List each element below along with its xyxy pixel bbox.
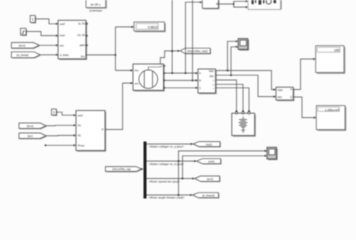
bus row 1 wire vs_q xyxy=(147,143,194,145)
wire a to load xyxy=(216,80,238,113)
svg-text:[AsyncMac_sig1]: [AsyncMac_sig1] xyxy=(187,49,208,53)
powergui block xyxy=(86,0,107,13)
svg-text:wref: wref xyxy=(78,113,83,117)
svg-text:<Rotor speed wm (pu)>: <Rotor speed wm (pu)> xyxy=(149,179,181,183)
svg-text:Vabc: Vabc xyxy=(209,70,215,73)
svg-text:[wr1]: [wr1] xyxy=(207,177,213,181)
wire subsystem out to machine in2 xyxy=(105,82,133,130)
svg-text:<Stator voltage vs_q (pu)>: <Stator voltage vs_q (pu)> xyxy=(149,145,185,149)
wire Pm net xyxy=(86,26,134,72)
from tag [wm] bottom xyxy=(19,123,47,129)
svg-text:Iabc: Iabc xyxy=(209,75,214,78)
svg-text:Q: Q xyxy=(290,96,292,99)
from tag [d_theta] top xyxy=(11,52,40,59)
scope1 (small, mid) xyxy=(238,39,249,51)
subsystem P (bottom left) xyxy=(76,111,106,152)
svg-text:P1: P1 xyxy=(78,123,82,127)
svg-text:Vd_5d: Vd_5d xyxy=(77,33,85,37)
svg-text:0.5815: 0.5815 xyxy=(148,26,158,30)
wire VI B tap up to top edge xyxy=(192,0,194,80)
wire [wm]b to subsystem in2 xyxy=(46,124,76,126)
svg-text:[d_theta]: [d_theta] xyxy=(17,53,29,57)
svg-text:Pmax: Pmax xyxy=(78,143,85,147)
wire meas P to display1 xyxy=(293,58,316,90)
wire step to Pref xyxy=(26,32,58,37)
svg-text:Vabc: Vabc xyxy=(278,89,284,92)
wire machine m to goto tag, vertical to top xyxy=(160,0,180,73)
wire [wm] to wm xyxy=(39,44,58,46)
svg-text:Pm: Pm xyxy=(135,70,139,73)
svg-text:2e-05 s.: 2e-05 s. xyxy=(90,2,101,6)
bus row 4 wire thetam xyxy=(147,194,193,196)
svg-text:C: C xyxy=(199,87,201,90)
display2 (1.286e+04) xyxy=(316,106,346,131)
scope2 (bottom right) xyxy=(267,147,278,160)
wire b to load xyxy=(216,84,245,113)
from tag [wm] top xyxy=(11,43,40,49)
three-phase RLC load xyxy=(232,112,256,137)
from tag [AsyncMac_sig] bottom xyxy=(105,167,142,173)
svg-text:Iq_5d: Iq_5d xyxy=(78,21,85,25)
goto tag [wr1] xyxy=(195,176,221,182)
display1 (149) xyxy=(316,46,346,74)
svg-text:wref: wref xyxy=(60,22,65,26)
svg-text:[vd1]: [vd1] xyxy=(208,159,214,163)
bus row 3 wire wm xyxy=(147,177,195,179)
svg-text:P1: P1 xyxy=(78,134,82,138)
wire bus row4/row2 to scope2 in1 xyxy=(178,150,267,196)
svg-text:[d_theta1]: [d_theta1] xyxy=(202,194,215,198)
svg-text:Pref: Pref xyxy=(60,34,65,38)
constant block 1 (top) xyxy=(30,15,36,23)
svg-text:[wm]: [wm] xyxy=(27,124,33,128)
controller subsystem U1 xyxy=(58,20,88,60)
wire c to load xyxy=(216,88,251,113)
step source block xyxy=(21,28,28,36)
svg-text:m: m xyxy=(160,65,162,68)
bus row 2 wire vs_d xyxy=(147,160,197,162)
svg-text:P: P xyxy=(102,127,104,131)
display block Pm value xyxy=(134,22,166,32)
svg-text:1.286e+04: 1.286e+04 xyxy=(325,108,340,112)
svg-text:149: 149 xyxy=(334,49,340,53)
goto tag [AsyncMac_sig1] xyxy=(180,48,211,54)
svg-text:Iabc: Iabc xyxy=(278,96,283,99)
svg-text:wm: wm xyxy=(135,82,139,85)
wire from tag to bus selector xyxy=(141,168,143,170)
from tag [wr] bottom xyxy=(19,133,47,139)
wire [d_theta] to d_theta xyxy=(40,54,58,56)
svg-text:[wr]: [wr] xyxy=(28,134,33,138)
wire stub to subsystem in4 xyxy=(45,144,76,146)
svg-text:d_theta: d_theta xyxy=(60,53,69,57)
wire machine B to VI B xyxy=(164,79,199,81)
top scope block (clipped) xyxy=(248,0,282,10)
svg-text:<Rotor angle thetam (rad)>: <Rotor angle thetam (rad)> xyxy=(149,196,185,200)
constant block 1 (bottom) xyxy=(52,109,58,116)
svg-text:1: 1 xyxy=(53,111,55,115)
svg-text:powergui: powergui xyxy=(90,9,103,13)
bus selector bar xyxy=(144,142,147,199)
wire top mini block out to scope inputs xyxy=(218,0,248,8)
three-phase VI measurement block xyxy=(198,69,217,94)
wire Iabc net xyxy=(216,46,277,98)
wire const1 to wref xyxy=(35,19,58,25)
power measurement block (right) xyxy=(276,87,294,101)
wire const1b to subsystem in1 xyxy=(56,112,76,116)
wire VI A tap up to top mini block xyxy=(186,1,203,73)
wire machine C to VI C xyxy=(164,87,199,89)
wire [wr]b to subsystem in3 xyxy=(46,134,76,136)
svg-text:1: 1 xyxy=(32,18,34,22)
svg-text:[vq1]: [vq1] xyxy=(206,142,212,146)
wire machine A to VI A xyxy=(164,72,199,74)
svg-text:[AsyncMac_sig]: [AsyncMac_sig] xyxy=(112,167,130,171)
goto tag [vd1] xyxy=(197,159,222,165)
goto tag [vq1] xyxy=(193,142,221,148)
PMSM machine M1 xyxy=(133,64,165,92)
top mini block xyxy=(202,0,219,9)
wire Vabc net xyxy=(216,40,277,90)
goto tag [d_theta1] xyxy=(193,193,220,199)
svg-text:gate: gate xyxy=(80,43,86,47)
wire bus row3 to scope2 in2 xyxy=(182,155,267,180)
svg-text:[wm]: [wm] xyxy=(19,44,25,48)
wire meas Q to display2 xyxy=(293,97,316,119)
